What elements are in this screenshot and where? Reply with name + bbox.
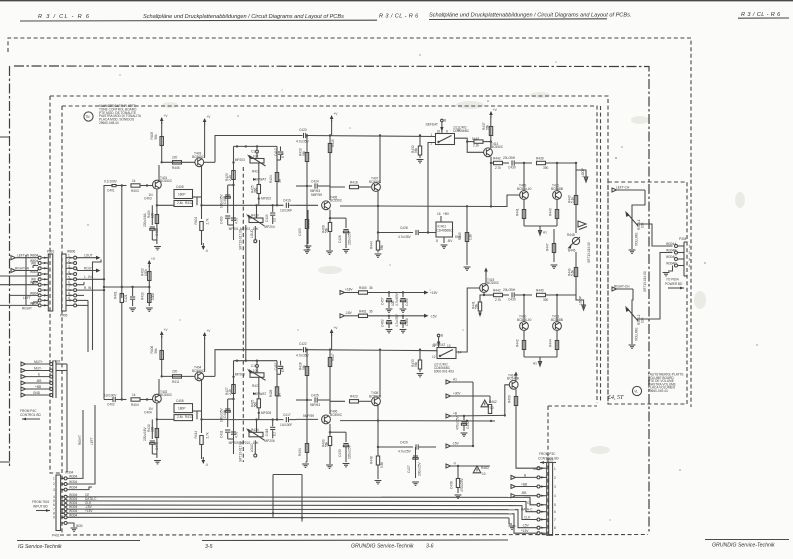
svg-text:C403: C403 — [144, 197, 152, 201]
ground T401 emitter — [154, 247, 161, 250]
pin wedges P404 — [62, 477, 65, 518]
supply arrow +V T413 — [489, 108, 497, 148]
wiper wire right pot up to P304 — [636, 253, 673, 320]
svg-text:C418: C418 — [265, 428, 269, 436]
svg-text:DPWAT: DPWAT — [255, 178, 266, 182]
transistor T414 BC548B mute — [507, 372, 519, 390]
svg-text:+BV: +BV — [443, 212, 450, 216]
wire row to P402 upper pins — [0, 0, 1, 1]
styroflex C405 180P with R412 — [174, 185, 202, 207]
wire LOUT drop to volume board — [93, 260, 102, 351]
capacitor C415 top right lower — [274, 361, 285, 375]
svg-text:VOLUME: VOLUME — [635, 328, 639, 341]
svg-text:+BB: +BB — [35, 385, 41, 389]
svg-text:R414: R414 — [194, 431, 198, 439]
signal arrow -V row — [446, 462, 490, 469]
wire pair feed row lower — [480, 292, 494, 297]
svg-text:SRT13-017.00: SRT13-017.00 — [239, 229, 243, 250]
capacitor C424 56P — [296, 180, 330, 194]
svg-text:8: 8 — [554, 526, 556, 530]
electrolytic C432 470u/25V — [456, 415, 471, 436]
svg-text:220u/16V: 220u/16V — [143, 426, 147, 441]
resistor R409 100 emitter — [147, 210, 159, 223]
svg-text:56k: 56k — [380, 244, 384, 250]
wire T413 collector down to row — [490, 157, 492, 207]
svg-text:R412: R412 — [185, 201, 193, 205]
connector P301 pins — [30, 254, 48, 307]
svg-text:7: 7 — [68, 286, 70, 290]
wire LOUT — [77, 254, 101, 260]
svg-text:R460: R460 — [359, 286, 367, 290]
svg-text:BC548B: BC548B — [551, 187, 563, 191]
svg-text:200u/25V: 200u/25V — [418, 461, 422, 476]
vertical wire C413 to ground — [305, 210, 312, 249]
svg-text:3-5: 3-5 — [205, 544, 213, 550]
wire row link to P402 — [0, 0, 1, 1]
ground below left pot — [629, 228, 636, 253]
wire wiper down lower — [258, 377, 260, 399]
svg-text:A1: A1 — [533, 362, 537, 366]
pot R420 10K bass — [246, 214, 265, 231]
svg-text:R413: R413 — [185, 415, 193, 419]
connector P402 body — [546, 458, 554, 536]
svg-text:4.7u/35V: 4.7u/35V — [296, 354, 310, 358]
svg-text:R441: R441 — [516, 208, 520, 216]
wire T414 to mute pin — [516, 412, 537, 468]
svg-text:+B: +B — [453, 412, 457, 416]
diode 1N C403 — [144, 193, 153, 201]
resistor R425 562 — [251, 185, 272, 206]
resistor R441 tail T409 — [516, 199, 526, 226]
svg-text:R428: R428 — [269, 389, 273, 397]
svg-text:R444: R444 — [370, 241, 374, 249]
emitter resistor network T406 — [298, 400, 309, 467]
wire T403 collector down — [200, 167, 202, 220]
svg-text:16: 16 — [437, 130, 441, 134]
svg-text:£4, 5T: £4, 5T — [608, 394, 624, 401]
resistor R402 100k — [141, 268, 151, 280]
svg-text:C405: C405 — [176, 185, 184, 189]
supply arrow -V below R414 — [202, 457, 210, 467]
svg-text:R 3 / CL - R 6: R 3 / CL - R 6 — [741, 12, 781, 18]
resistor R443a 2.7k — [493, 156, 509, 170]
svg-text:C424: C424 — [311, 180, 319, 184]
svg-text:3-6: 3-6 — [426, 544, 434, 550]
svg-text:4.7u: 4.7u — [234, 218, 238, 224]
svg-text:W304: W304 — [69, 486, 78, 490]
board title block volume — [648, 373, 684, 394]
connector P301 body left strip — [48, 254, 53, 311]
svg-text:BC560C: BC560C — [192, 369, 205, 373]
capacitor C463 lower rail2 — [395, 313, 409, 333]
wire into volume pot left — [632, 190, 645, 210]
svg-text:5MP/59: 5MP/59 — [303, 414, 314, 418]
registration tick lower left — [0, 461, 10, 463]
capacitor C416 series 1u/100F — [280, 199, 296, 213]
svg-text:P401: P401 — [52, 534, 60, 538]
svg-text:3: 3 — [53, 488, 55, 492]
connector P404 body — [52, 471, 74, 538]
svg-text:W304A: W304A — [666, 242, 677, 246]
svg-text:C425: C425 — [311, 394, 319, 398]
electrolytic C407 100u/35V — [220, 185, 234, 213]
bus wire -15V — [67, 505, 515, 510]
svg-text:29660-049.44: 29660-049.44 — [648, 389, 668, 393]
wire R.IN to input bus — [77, 286, 104, 290]
svg-text:LEFT: LEFT — [90, 437, 94, 445]
LOOP output arrow lower — [570, 295, 585, 310]
supply arrow +V T404 — [203, 329, 211, 372]
svg-text:R442: R442 — [493, 156, 501, 160]
signal arrow +30V row — [446, 392, 490, 404]
svg-text:56k: 56k — [414, 361, 418, 367]
pot R304-1 volume left — [625, 210, 644, 246]
svg-text:2.4k: 2.4k — [177, 201, 183, 205]
svg-text:R442: R442 — [516, 339, 520, 347]
svg-text:C428: C428 — [400, 226, 408, 230]
svg-text:R 3 / CL - R 6: R 3 / CL - R 6 — [379, 14, 419, 20]
svg-text:W304C: W304C — [666, 255, 677, 259]
resistor R428 right edge lower — [269, 387, 282, 398]
wire P402 pin3 +BB — [511, 482, 537, 488]
svg-text:MP206: MP206 — [265, 439, 275, 443]
wire +30V down to C429 row — [0, 0, 1, 1]
svg-text:BC546-40: BC546-40 — [517, 318, 532, 322]
resistor R406 220 — [172, 156, 182, 170]
transistor T410 BC546-40 — [517, 295, 532, 330]
transistor T406 BC550C — [322, 410, 343, 424]
triangle warning lower — [473, 466, 489, 476]
header rule far right — [738, 17, 789, 19]
svg-text:4.7u: 4.7u — [234, 432, 238, 438]
wire P404 pin1 riser RIGHT — [67, 410, 83, 478]
PCB outline inner bottom jog — [548, 405, 597, 407]
svg-text:2: 2 — [53, 482, 55, 486]
supply arrow +V T401 — [160, 114, 168, 162]
svg-text:R434: R434 — [298, 448, 302, 456]
supply input -18V — [340, 311, 358, 318]
svg-text:CONTROL BD: CONTROL BD — [20, 413, 41, 417]
svg-text:C401: C401 — [107, 189, 115, 193]
svg-text:-BB: -BB — [36, 379, 41, 383]
svg-text:56k: 56k — [475, 303, 479, 309]
svg-text:C433: C433 — [338, 449, 342, 457]
wire P404 pin3 stub — [67, 487, 92, 490]
wire bass pot stem — [256, 205, 258, 218]
svg-text:R418: R418 — [350, 180, 358, 184]
svg-text:8: 8 — [436, 239, 438, 243]
svg-text:ETH: ETH — [281, 365, 285, 372]
label RIGHT-CH — [612, 284, 633, 291]
outer dashed frame top — [8, 38, 691, 160]
svg-text:BC550C: BC550C — [160, 179, 173, 183]
svg-text:-BB: -BB — [521, 491, 526, 495]
ground P404 bottom — [67, 523, 82, 531]
svg-text:390: 390 — [543, 166, 549, 170]
svg-text:1U/100F: 1U/100F — [280, 209, 292, 213]
resistor R404b 1k — [131, 393, 153, 407]
footer rule middle — [202, 539, 508, 542]
wire T404 collector down — [200, 381, 202, 433]
svg-text:B445: B445 — [568, 249, 576, 253]
svg-text:-15V: -15V — [452, 442, 460, 446]
wiper wire left pot to P304 — [636, 224, 673, 246]
supply arrow +V T403 — [203, 115, 211, 158]
resistor R442 2.7k — [493, 288, 509, 302]
label DPWAT — [253, 178, 266, 182]
svg-text:10: 10 — [482, 472, 486, 476]
diode W842 at pin3 — [31, 261, 38, 268]
svg-text:CONTROL BD: CONTROL BD — [538, 457, 559, 461]
capacitor C409 4.7u — [220, 216, 239, 231]
svg-text:100k: 100k — [151, 293, 155, 300]
label MP203 node — [235, 158, 245, 162]
svg-text:4.7u/35V: 4.7u/35V — [395, 313, 399, 327]
svg-text:56k: 56k — [485, 124, 489, 130]
supply arrow +V divider — [148, 257, 156, 287]
svg-text:MP205: MP205 — [235, 372, 245, 376]
svg-text:56k: 56k — [302, 150, 306, 156]
svg-text:C411: C411 — [220, 430, 224, 438]
svg-text:10K: 10K — [253, 155, 260, 159]
long vertical link between networks — [243, 225, 246, 378]
transistor T403 BC560C — [192, 152, 205, 167]
svg-text:R439: R439 — [536, 156, 544, 160]
svg-text:180P: 180P — [178, 407, 185, 411]
svg-text:L . IN: L . IN — [84, 275, 92, 279]
TN board id circle — [84, 112, 93, 121]
footer rule left — [17, 540, 140, 542]
svg-text:12: 12 — [432, 355, 436, 359]
input bus vertical left — [104, 186, 110, 400]
label DPWAT lower — [253, 392, 266, 396]
svg-text:5: 5 — [68, 275, 70, 279]
wire lower network top edge — [234, 360, 278, 362]
wire T408 emitter up — [379, 349, 381, 398]
svg-text:100k: 100k — [144, 269, 148, 276]
svg-text:GRUNDIG Service-Technik: GRUNDIG Service-Technik — [351, 544, 414, 550]
bus wire DATA-C — [67, 497, 521, 502]
PCB outline inner dashed box top — [62, 106, 597, 403]
svg-text:R420: R420 — [251, 428, 259, 432]
resistor R437 100k — [482, 122, 493, 135]
svg-text:R461: R461 — [359, 309, 367, 313]
capacitor C413 on left column — [231, 432, 250, 445]
svg-text:1: 1 — [689, 245, 691, 249]
svg-text:D66: D66 — [455, 235, 461, 239]
wire T401 collector up — [158, 165, 160, 181]
ground below right pot — [629, 323, 636, 348]
resistor R415 collector feed — [328, 136, 335, 201]
resistor R414 2.7k — [194, 431, 210, 459]
wire T407 collector down and output row — [340, 191, 495, 233]
resistor R407 220 — [172, 370, 182, 384]
resistor R444b tail T412 — [549, 330, 559, 357]
switch DEFEAT lower — [432, 334, 462, 360]
svg-text:C426: C426 — [338, 235, 342, 243]
label LEFT-CH — [612, 185, 645, 192]
registration tick upper left — [0, 136, 10, 138]
resistor R410b 100 emitter — [147, 424, 159, 437]
capacitor C431 series lower — [503, 288, 532, 302]
electrolytic C436 — [450, 466, 465, 498]
svg-text:5MP/59: 5MP/59 — [311, 193, 322, 197]
wire defeat lower output to T415 base — [456, 288, 480, 352]
svg-text:LOUD: LOUD — [250, 228, 254, 238]
wire T408 collector down and output row lower — [340, 406, 495, 422]
PCB outline jog vertical — [547, 406, 549, 535]
resistor R461 36 — [359, 309, 425, 317]
svg-text:FROM 7601: FROM 7601 — [32, 500, 50, 504]
wire T406 base — [296, 414, 318, 419]
svg-text:29660-048.44: 29660-048.44 — [99, 121, 119, 125]
svg-text:R404: R404 — [194, 217, 198, 225]
svg-text:1: 1 — [431, 133, 433, 137]
svg-text:C404: C404 — [144, 411, 152, 415]
wire lower network left vertical — [232, 361, 234, 454]
svg-text:BC560C: BC560C — [192, 155, 205, 159]
connector W806 body right strip — [62, 254, 66, 311]
svg-text:DATA-C: DATA-C — [521, 508, 533, 512]
svg-text:-15V: -15V — [522, 524, 530, 528]
wire -V continue — [0, 0, 1, 1]
svg-text:C412: C412 — [274, 148, 278, 156]
resistor R419 100k — [141, 287, 155, 311]
pot R420 10K bass lower — [246, 428, 265, 445]
svg-text:2.4k: 2.4k — [177, 415, 183, 419]
svg-text:GRUNDIG Service-Technik: GRUNDIG Service-Technik — [712, 543, 775, 549]
svg-text:W304D: W304D — [666, 262, 677, 266]
svg-text:C417: C417 — [283, 413, 291, 417]
resistor R423 2.2k — [225, 171, 235, 182]
svg-text:B: B — [444, 119, 446, 123]
svg-text:5448: 5448 — [472, 137, 479, 141]
svg-text:C419: C419 — [265, 214, 269, 222]
svg-text:+30V: +30V — [453, 392, 461, 396]
resistor R409b emitter lower — [322, 437, 333, 469]
wire into volume pot right — [632, 289, 633, 305]
svg-text:R423: R423 — [350, 395, 358, 399]
resistor R442 tail T410 — [516, 330, 526, 357]
jumper link symbol — [578, 221, 587, 230]
wire T405 collector to T407 — [330, 187, 345, 200]
svg-text:SRT13-017.00: SRT13-017.00 — [239, 441, 243, 462]
svg-text:LEFT-CH: LEFT-CH — [616, 185, 630, 189]
wire bass pot stem lower — [256, 420, 258, 433]
svg-text:MUT-: MUT- — [34, 366, 42, 370]
LOOP output arrow upper — [575, 162, 588, 182]
bus wire gnd row — [67, 516, 509, 519]
svg-text:5.6k: 5.6k — [380, 462, 384, 468]
wire P404 pin2 riser LEFT — [67, 405, 95, 484]
svg-text:9: 9 — [68, 296, 70, 300]
svg-text:C462: C462 — [381, 319, 385, 327]
wire defeat output to T413 base — [455, 138, 484, 152]
transistor T409 BC546-40 — [517, 163, 532, 199]
svg-text:R444: R444 — [549, 339, 553, 347]
resistor R440 390 lower — [536, 288, 570, 302]
signal arrow A1 row — [446, 378, 473, 385]
wire T401 emitter down — [156, 189, 174, 244]
svg-text:MP208: MP208 — [261, 411, 271, 415]
resistor R418 1k — [350, 180, 372, 188]
resistor R446 2.1k tail lower — [0, 0, 1, 1]
svg-text:LOUT: LOUT — [84, 254, 93, 258]
svg-text:+18V: +18V — [345, 288, 353, 292]
transistor T407 BC550C — [369, 177, 382, 192]
wire network left vertical — [232, 146, 234, 240]
svg-text:R462: R462 — [489, 400, 497, 404]
supply output -15V arrow — [424, 314, 438, 319]
svg-text:MP203: MP203 — [235, 158, 245, 162]
capacitor C419 right tap lower — [265, 420, 277, 439]
svg-text:P405: P405 — [60, 314, 68, 318]
svg-text:R420: R420 — [251, 214, 259, 218]
svg-text:B: B — [524, 473, 526, 477]
resistor R448 5.6k to gnd — [370, 447, 385, 484]
svg-text:-18V: -18V — [345, 311, 353, 315]
resistor R408 emitter — [322, 223, 333, 255]
transistor T401 BC550C — [153, 176, 173, 189]
svg-text:6: 6 — [554, 510, 556, 514]
svg-text:10K: 10K — [641, 221, 645, 228]
resistor R421b 1k — [350, 395, 372, 403]
svg-text:BC548B: BC548B — [507, 377, 519, 381]
connector P304 — [666, 237, 691, 276]
svg-text:16: 16 — [437, 212, 441, 216]
wire top rail upper — [204, 134, 436, 162]
svg-text:W8: W8 — [31, 261, 36, 265]
transistor T405 BC550C — [322, 196, 343, 210]
capacitor C401 0.1/100V input — [104, 180, 127, 193]
svg-text:220: 220 — [172, 156, 178, 160]
capacitor C430 series — [503, 156, 532, 170]
diode W848 at pin9 — [33, 302, 38, 305]
wire lower pair feed vertical — [0, 0, 1, 1]
svg-text:Schaltpläne und Druckplattenab: Schaltpläne und Druckplattenabbildungen … — [143, 14, 344, 20]
svg-text:LEFT-IN: LEFT-IN — [17, 254, 30, 258]
svg-text:VL: VL — [634, 390, 638, 394]
wire defeat pin2 drop — [427, 143, 436, 234]
svg-text:5: 5 — [554, 503, 556, 507]
svg-text:W304B: W304B — [666, 249, 676, 253]
svg-text:MP201: MP201 — [229, 227, 239, 231]
diode W845 at pin6 — [31, 278, 38, 284]
svg-text:W304: W304 — [69, 474, 78, 478]
wire T402 emitter down — [156, 403, 174, 458]
svg-text:2: 2 — [689, 251, 691, 255]
transistor T412 BC548B — [551, 295, 563, 330]
svg-text:R463: R463 — [481, 466, 489, 470]
svg-text:470u/25V: 470u/25V — [456, 415, 460, 430]
label 1/2 IC401 upper — [453, 126, 470, 133]
svg-text:2.7k: 2.7k — [495, 166, 501, 170]
PCB outline middle dashed box — [50, 96, 608, 404]
board section dashed line SRT13-017.00 — [239, 167, 244, 252]
svg-text:LOOP: LOOP — [579, 296, 583, 305]
svg-text:RIGHT-CH: RIGHT-CH — [614, 284, 630, 288]
wire left bus rows — [0, 274, 38, 310]
svg-text:VOLUME: VOLUME — [635, 233, 639, 246]
svg-text:C415: C415 — [274, 362, 278, 370]
bus joins to P402 — [512, 497, 537, 533]
svg-text:C422: C422 — [299, 342, 307, 346]
svg-text:CD4066BC: CD4066BC — [453, 129, 470, 133]
label MP206 — [265, 439, 275, 443]
svg-text:W304: W304 — [69, 480, 78, 484]
diode 1N C404 — [144, 407, 153, 415]
transistor T404 BC560C — [192, 366, 205, 381]
